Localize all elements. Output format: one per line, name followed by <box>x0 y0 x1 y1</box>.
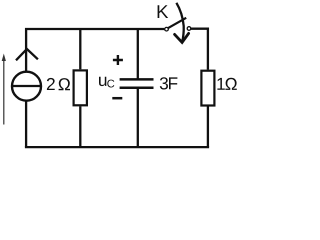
capacitor C bottom plate <box>120 86 154 89</box>
wire bottom rail <box>25 146 209 148</box>
label C subscript (of uC) <box>107 80 114 88</box>
wire capacitor branch lower <box>137 88 139 147</box>
label u (of uC) <box>99 77 106 86</box>
current source arrow head on wire <box>16 49 38 60</box>
wire 2-ohm branch upper <box>79 29 81 69</box>
label K (switch) <box>158 5 169 18</box>
label ohm (of 2-ohm) <box>59 78 70 90</box>
label F (of 3F) <box>169 77 177 89</box>
switch K blade <box>167 18 186 29</box>
wire 2-ohm branch lower <box>79 106 81 147</box>
label 2 (of 2-ohm) <box>47 78 55 90</box>
capacitor C top plate <box>120 78 154 81</box>
resistor R 2-ohm body <box>74 70 87 105</box>
current source I1 diameter bar <box>12 85 41 87</box>
wire capacitor branch upper <box>137 29 139 79</box>
current direction arrow head <box>2 54 6 62</box>
label ohm (of 1-ohm) <box>225 78 236 90</box>
label 1 (of 1-ohm) <box>217 78 224 90</box>
wire top-left: top rail from switch left terminal to left corner, down to source <box>26 29 164 72</box>
current source I1 circle <box>12 72 41 101</box>
wire left lower: from source bottom to bottom-left corner <box>25 101 27 147</box>
current direction arrow (thin, far left) shaft <box>3 57 5 125</box>
switch K motion arc <box>176 3 183 42</box>
label 3 (of 3F) <box>160 77 168 89</box>
switch K right terminal <box>187 27 191 31</box>
polarity minus sign <box>112 97 122 100</box>
polarity plus sign <box>113 55 123 65</box>
wire below 1-ohm resistor <box>207 106 209 147</box>
switch K motion arrow head <box>175 33 189 42</box>
resistor R 1-ohm body <box>201 71 214 106</box>
switch K left terminal <box>165 27 169 31</box>
wire right side: from switch right terminal to corner and down to 1-ohm resistor <box>191 29 208 70</box>
